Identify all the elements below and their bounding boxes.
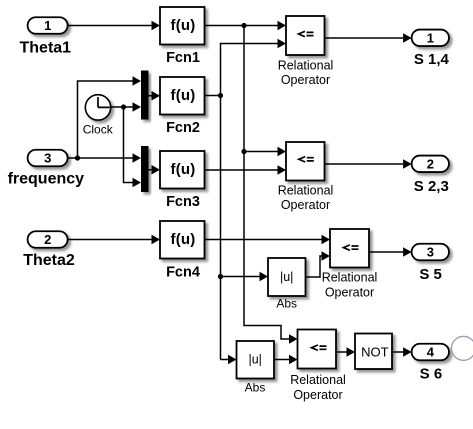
svg-text:1: 1 <box>427 31 434 46</box>
wire mux2 output to Fcn3 <box>149 165 161 174</box>
svg-text:1: 1 <box>44 18 51 33</box>
block Fcn1 <box>160 7 205 66</box>
svg-text:3: 3 <box>427 245 434 260</box>
wire Abs2 output to RelOp4 input 2 <box>274 355 298 364</box>
svg-text:Relational: Relational <box>322 271 378 285</box>
svg-text:S 6: S 6 <box>420 366 443 383</box>
node junction Fcn1 output <box>241 23 246 28</box>
svg-text:S 1,4: S 1,4 <box>414 51 450 68</box>
block Fcn4 <box>160 221 205 280</box>
svg-text:f(u): f(u) <box>171 87 196 104</box>
wire frequency to mux2 input 1 <box>68 153 141 162</box>
svg-text:f(u): f(u) <box>171 231 196 248</box>
wire mux1 output to Fcn2 <box>149 91 161 100</box>
output port 4 (S 6) <box>412 344 449 383</box>
svg-text:|u|: |u| <box>248 353 261 367</box>
svg-text:|u|: |u| <box>280 270 293 284</box>
svg-text:2: 2 <box>44 232 51 247</box>
svg-text:2: 2 <box>427 157 434 172</box>
svg-text:Theta2: Theta2 <box>23 252 75 269</box>
svg-text:f(u): f(u) <box>171 161 196 178</box>
node junction frequency <box>75 155 80 160</box>
relational operator 3 <box>322 229 378 300</box>
relational operator 4 <box>290 330 346 403</box>
wire trunk B branch to RelOp2 input 1 <box>244 147 286 156</box>
svg-text:Fcn1: Fcn1 <box>166 50 200 66</box>
svg-text:frequency: frequency <box>8 171 85 188</box>
wire Fcn1 to RelOp1 input 1 <box>205 21 287 30</box>
wire Fcn3 output to RelOp2 input 2 <box>205 165 287 174</box>
wire RelOp4 output to NOT <box>336 347 355 356</box>
svg-text:Relational: Relational <box>278 183 334 197</box>
svg-text:Fcn4: Fcn4 <box>166 264 200 280</box>
wire Theta1 to Fcn1 <box>68 21 160 30</box>
output port 2 (S 2,3) <box>412 156 449 195</box>
block Fcn3 <box>160 151 205 210</box>
svg-text:S 2,3: S 2,3 <box>414 178 449 195</box>
NOT block <box>355 334 392 370</box>
svg-text:Fcn2: Fcn2 <box>166 120 200 136</box>
mux Mux2 <box>141 146 149 192</box>
relational operator 2 <box>278 142 334 212</box>
svg-text:f(u): f(u) <box>171 17 196 34</box>
wire Abs1 output to RelOp3 input 2 <box>306 251 331 277</box>
node junction clock output <box>121 104 126 109</box>
wire trunk A bottom into Abs2 <box>221 355 237 364</box>
output port 3 (S 5) <box>412 244 449 283</box>
relational operator 1 <box>278 16 334 87</box>
svg-text:Abs: Abs <box>245 381 266 395</box>
svg-text:Abs: Abs <box>276 297 297 311</box>
output port 1 (S 1,4) <box>412 30 450 68</box>
wire clock branch down to mux2 input 2 <box>124 107 142 187</box>
svg-text:Theta1: Theta1 <box>20 40 72 57</box>
svg-text:Fcn3: Fcn3 <box>166 194 200 210</box>
clock block <box>83 95 114 137</box>
node junction Fcn2 output <box>218 93 223 98</box>
svg-text:3: 3 <box>44 151 51 166</box>
mux Mux1 <box>141 71 149 120</box>
svg-text:Operator: Operator <box>281 73 330 87</box>
wire NOT output to port S 6 <box>392 347 412 356</box>
svg-text:Relational: Relational <box>278 58 334 72</box>
wire frequency trunk up to mux1 input 1 <box>78 76 142 158</box>
wire RelOp2 output to port S 2,3 <box>325 159 412 168</box>
abs block 2 <box>237 341 275 395</box>
wire RelOp3 output to port S 5 <box>369 247 412 256</box>
abs block 1 <box>268 258 306 311</box>
svg-text:NOT: NOT <box>361 344 389 359</box>
wire clock to mux1 input 2 <box>111 102 142 111</box>
node junction trunk A row Abs1 <box>218 274 223 279</box>
wire trunk A vertical with top branch to RelOp1 input 2 <box>221 39 287 360</box>
svg-text:S 5: S 5 <box>419 266 442 283</box>
input port 1 (Theta1) <box>20 17 72 56</box>
node junction trunk B row RelOp2 <box>241 149 246 154</box>
wire Theta2 to Fcn4 <box>68 235 160 244</box>
wire Fcn4 output to RelOp3 input 1 <box>205 235 331 244</box>
svg-text:4: 4 <box>427 345 435 360</box>
wire trunk B down to RelOp4 input 1 <box>244 26 298 344</box>
wire RelOp1 output to port S 1,4 <box>325 33 412 42</box>
svg-text:Operator: Operator <box>281 198 330 212</box>
svg-text:Relational: Relational <box>290 373 346 387</box>
svg-text:Clock: Clock <box>83 123 114 137</box>
svg-text:Operator: Operator <box>293 388 342 402</box>
input port 3 (frequency) <box>8 150 85 188</box>
wire trunk A branch to Abs1 <box>221 272 269 281</box>
unconnected port circle <box>452 336 473 360</box>
input port 2 (Theta2) <box>23 231 75 269</box>
svg-text:Operator: Operator <box>325 286 374 300</box>
wire Fcn2 output to trunk A <box>205 95 221 97</box>
block Fcn2 <box>160 77 205 136</box>
